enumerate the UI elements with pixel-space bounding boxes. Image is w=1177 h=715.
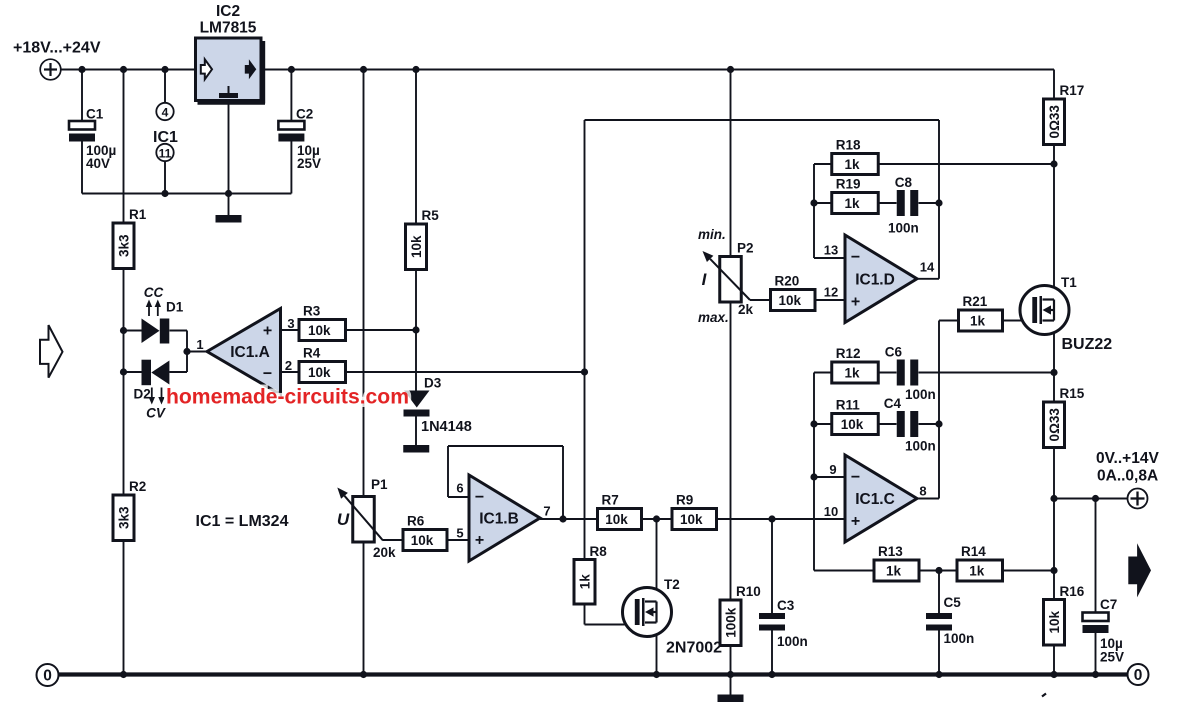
svg-text:max.: max. — [698, 310, 729, 325]
svg-text:1k: 1k — [844, 366, 860, 381]
wire R3 to R5/D3 node — [346, 326, 420, 333]
terminal + output — [1128, 489, 1148, 509]
wire P1 wiper to R6 — [383, 539, 403, 541]
svg-text:R4: R4 — [303, 346, 321, 361]
svg-text:−: − — [851, 469, 860, 486]
regulator IC2 LM7815 — [196, 3, 266, 104]
svg-text:100n: 100n — [905, 387, 936, 402]
wire C3 branch — [771, 519, 773, 675]
potentiometer P1 — [337, 477, 396, 560]
svg-text:−: − — [851, 249, 860, 266]
wire IC1.D output feedback line — [585, 120, 943, 372]
wire P2 bottom to R10 — [730, 301, 732, 601]
resistor R10 100k — [720, 584, 761, 646]
svg-text:+: + — [851, 513, 860, 530]
svg-text:T1: T1 — [1061, 275, 1077, 290]
IC1 pin 4 supply circle — [156, 103, 173, 120]
svg-text:+: + — [263, 323, 272, 340]
wire IC2 ground pin — [228, 101, 230, 216]
svg-text:14: 14 — [920, 260, 935, 275]
wire P2 branch top — [730, 70, 732, 257]
resistor R8 1k — [574, 544, 607, 604]
svg-text:R6: R6 — [407, 514, 425, 529]
ground — [216, 215, 242, 223]
svg-text:+18V...+24V: +18V...+24V — [13, 40, 101, 57]
wire C6 to T1 source sense — [919, 369, 1058, 376]
capacitor C6 — [885, 345, 936, 403]
wire R12 to C6 — [878, 372, 897, 374]
svg-text:CV: CV — [146, 406, 166, 421]
svg-text:U: U — [337, 510, 350, 529]
wire R11 left — [814, 423, 832, 425]
svg-text:IC1 = LM324: IC1 = LM324 — [196, 513, 289, 530]
svg-text:1k: 1k — [578, 574, 593, 590]
svg-text:10k: 10k — [308, 323, 331, 338]
svg-text:10k: 10k — [409, 235, 424, 258]
svg-text:LM7815: LM7815 — [200, 20, 257, 37]
wire T1 source to R15 — [1053, 321, 1055, 402]
svg-text:1k: 1k — [886, 564, 902, 579]
resistor R21 1k — [959, 294, 1003, 331]
svg-text:2: 2 — [285, 358, 292, 373]
capacitor C3 — [759, 598, 808, 649]
wire decoupling ground bus — [82, 190, 291, 197]
wire C8 to output node — [919, 202, 940, 204]
svg-text:C6: C6 — [885, 345, 903, 360]
svg-text:0: 0 — [43, 668, 52, 685]
wire R7 to T2 drain node — [642, 515, 673, 522]
svg-text:C1: C1 — [86, 107, 104, 122]
svg-text:100k: 100k — [724, 607, 739, 638]
wire IC1.B pin6 feedback loop — [448, 446, 567, 523]
wire +V top rail — [61, 66, 1055, 99]
wire IC1 supply pins branch — [164, 70, 166, 194]
svg-text:10k: 10k — [841, 417, 864, 432]
svg-text:25V: 25V — [1100, 650, 1124, 665]
wire T1 drain column — [1053, 145, 1055, 300]
svg-text:C8: C8 — [895, 175, 913, 190]
svg-text:R16: R16 — [1060, 584, 1085, 599]
ground — [718, 695, 744, 703]
svg-text:R9: R9 — [676, 493, 693, 508]
svg-text:100n: 100n — [905, 439, 936, 454]
output arrow — [1128, 543, 1151, 597]
wire R18 left — [814, 163, 832, 165]
wire R9 to C3 node and IC1.C pin10 — [717, 515, 846, 522]
wire R19 left — [814, 202, 832, 204]
resistor R4 10k — [299, 346, 346, 383]
svg-text:D2: D2 — [134, 387, 151, 402]
terminal 0 left — [37, 664, 59, 686]
svg-text:CC: CC — [144, 285, 164, 300]
resistor R12 1k — [832, 346, 879, 383]
svg-text:D1: D1 — [166, 300, 184, 315]
resistor R20 10k — [771, 274, 816, 311]
svg-text:+: + — [475, 532, 484, 549]
svg-text:20k: 20k — [373, 545, 396, 560]
svg-text:R1: R1 — [129, 207, 147, 222]
artifact mark — [1042, 694, 1046, 697]
svg-text:10k: 10k — [680, 512, 703, 527]
svg-text:C2: C2 — [296, 107, 313, 122]
svg-text:C5: C5 — [944, 595, 962, 610]
terminal + input — [40, 59, 61, 80]
wire R21 to T1 gate — [1003, 320, 1032, 322]
svg-text:9: 9 — [829, 462, 836, 477]
resistor R2 3k3 — [113, 479, 146, 541]
svg-text:10k: 10k — [778, 293, 801, 308]
node pin1 junction — [183, 348, 207, 355]
wire C7 branch — [1095, 499, 1097, 675]
svg-text:0A..0,8A: 0A..0,8A — [1097, 468, 1158, 485]
wire R19 to C8 — [878, 202, 897, 204]
svg-text:3k3: 3k3 — [117, 506, 132, 529]
wire R20 to IC1.D pin12 — [815, 299, 845, 301]
wire ground stub at 0V rail — [730, 676, 732, 695]
capacitor C4 — [884, 396, 936, 454]
wire R16 bottom — [1053, 645, 1055, 675]
svg-text:100n: 100n — [944, 631, 975, 646]
resistor R9 10k — [672, 493, 717, 530]
svg-text:6: 6 — [456, 481, 463, 496]
capacitor C1 — [69, 107, 116, 172]
wire C1 branch — [81, 70, 83, 194]
wire D3 to ground — [415, 417, 417, 446]
capacitor C5 — [926, 595, 974, 646]
wire IC1.C output pin8 — [917, 498, 939, 500]
svg-text:R21: R21 — [963, 294, 988, 309]
svg-text:1k: 1k — [844, 196, 860, 211]
svg-text:7: 7 — [543, 504, 550, 519]
wire IC1.B output pin7 to R7 — [540, 518, 598, 520]
resistor R3 10k — [299, 304, 346, 341]
svg-text:10k: 10k — [1047, 610, 1062, 633]
wire R1 top — [123, 70, 125, 224]
svg-text:8: 8 — [919, 484, 926, 499]
op-amp IC1.B — [469, 475, 540, 561]
svg-text:R5: R5 — [422, 208, 440, 223]
resistor R13 1k — [874, 544, 919, 581]
svg-text:12: 12 — [824, 285, 838, 300]
wire R13 to R14 node — [919, 567, 957, 574]
svg-text:R2: R2 — [129, 479, 146, 494]
wire D2 cathode — [124, 371, 142, 373]
resistor R11 10k — [832, 398, 879, 435]
resistor R17 0Ω33 — [1044, 83, 1085, 145]
resistor R6 10k — [403, 514, 447, 551]
svg-text:3: 3 — [287, 316, 294, 331]
LED D2 (CV) — [134, 360, 170, 421]
wire IC1.D output pin14 — [917, 278, 939, 280]
svg-text:IC1.C: IC1.C — [855, 491, 895, 508]
wire IC1.A pin2 to R4 — [281, 371, 300, 373]
wire R21 to IC1.C output node — [935, 321, 958, 499]
svg-text:R20: R20 — [775, 274, 800, 289]
svg-text:10k: 10k — [308, 365, 331, 380]
wire R11 to C4 — [878, 423, 897, 425]
svg-text:C7: C7 — [1100, 597, 1117, 612]
svg-text:R13: R13 — [878, 544, 903, 559]
svg-text:IC1.B: IC1.B — [479, 511, 519, 528]
svg-text:C4: C4 — [884, 396, 902, 411]
wire IC1.A pin3 to R3 — [281, 329, 300, 331]
svg-text:R3: R3 — [303, 304, 321, 319]
resistor R5 10k — [406, 208, 440, 270]
svg-text:D3: D3 — [424, 376, 442, 391]
svg-text:10: 10 — [824, 504, 838, 519]
svg-text:100n: 100n — [777, 634, 808, 649]
svg-text:1: 1 — [196, 337, 203, 352]
wire IC1.D pin13 branch — [810, 164, 845, 258]
svg-text:1k: 1k — [969, 564, 985, 579]
svg-text:R11: R11 — [836, 398, 861, 413]
svg-text:5: 5 — [456, 526, 463, 541]
potentiometer P2 — [698, 227, 754, 325]
input arrow — [40, 325, 63, 378]
resistor R19 1k — [832, 177, 879, 214]
wire R16 column — [1053, 571, 1055, 600]
svg-text:1N4148: 1N4148 — [421, 419, 472, 435]
svg-text:R17: R17 — [1060, 83, 1085, 98]
svg-text:R14: R14 — [961, 544, 986, 559]
wire C4 right — [919, 423, 940, 425]
wire 0V bottom rail — [58, 671, 1128, 678]
svg-text:IC1.D: IC1.D — [855, 271, 895, 288]
diode D3 1N4148 — [404, 376, 472, 436]
svg-text:IC2: IC2 — [216, 3, 240, 20]
wire R4 to feedback node — [346, 368, 589, 375]
svg-text:1k: 1k — [970, 314, 986, 329]
resistor R14 1k — [957, 544, 1003, 581]
wire C2 branch — [290, 70, 292, 194]
wire output line to + terminal — [1054, 495, 1128, 502]
wire R10 bottom — [730, 645, 732, 675]
svg-text:−: − — [263, 366, 272, 383]
wire IC1.C pin9 branch — [810, 373, 845, 571]
svg-text:R7: R7 — [602, 493, 619, 508]
svg-text:1k: 1k — [844, 157, 860, 172]
wire R15 to output node — [1050, 448, 1057, 571]
svg-text:R12: R12 — [836, 346, 861, 361]
wire T2 source — [656, 623, 658, 675]
capacitor C8 — [888, 175, 919, 236]
capacitor C2 — [278, 107, 321, 172]
wire R14 to T1 source line — [1003, 567, 1058, 574]
svg-text:10k: 10k — [411, 533, 434, 548]
wire P1 branch — [363, 70, 365, 675]
svg-text:BUZ22: BUZ22 — [1062, 336, 1113, 353]
svg-text:min.: min. — [698, 227, 726, 242]
svg-text:C3: C3 — [777, 598, 795, 613]
svg-text:R19: R19 — [836, 177, 861, 192]
svg-text:40V: 40V — [86, 156, 110, 171]
svg-text:2N7002: 2N7002 — [666, 640, 722, 657]
wire R18 to current sense node — [878, 160, 1058, 167]
svg-text:25V: 25V — [297, 156, 321, 171]
wire R6 to IC1.B pin5 — [447, 539, 469, 541]
op-amp IC1.D — [845, 235, 917, 323]
svg-text:T2: T2 — [664, 577, 680, 592]
svg-text:0Ω33: 0Ω33 — [1047, 105, 1062, 139]
wire feedback node to R8 — [584, 372, 586, 560]
wire D1 anode — [124, 330, 142, 332]
resistor R7 10k — [598, 493, 642, 530]
svg-text:homemade-circuits.com: homemade-circuits.com — [166, 385, 409, 409]
wire R1 to D1/D2 node — [120, 269, 127, 496]
wire P2 wiper to R20 — [750, 299, 771, 301]
transistor T1 MOSFET — [1020, 286, 1069, 335]
resistor R16 10k — [1044, 584, 1085, 645]
svg-text:−: − — [475, 489, 484, 506]
svg-text:10k: 10k — [605, 512, 628, 527]
resistor R1 3k3 — [113, 207, 147, 269]
svg-text:3k3: 3k3 — [117, 234, 132, 257]
svg-text:0: 0 — [1134, 667, 1143, 684]
ground — [403, 445, 429, 453]
svg-text:R18: R18 — [836, 138, 861, 153]
svg-text:100n: 100n — [888, 221, 919, 236]
terminal 0 right — [1128, 664, 1149, 685]
svg-text:0V..+14V: 0V..+14V — [1096, 450, 1159, 467]
wire R12 left — [814, 372, 832, 374]
svg-text:4: 4 — [162, 105, 169, 119]
wire T2 drain — [656, 519, 658, 602]
svg-text:R8: R8 — [590, 544, 608, 559]
resistor R18 1k — [832, 138, 879, 175]
wire R5 branch — [415, 70, 417, 391]
wire D2 anode to node — [169, 352, 187, 373]
svg-text:2k: 2k — [738, 302, 754, 317]
svg-text:P2: P2 — [737, 241, 754, 256]
LED D1 (CC) — [142, 285, 184, 344]
svg-text:11: 11 — [159, 146, 172, 160]
resistor R15 0Ω33 — [1044, 386, 1085, 448]
IC1 pin 11 supply circle — [156, 144, 173, 161]
capacitor C7 — [1083, 597, 1125, 665]
wire D1 cathode to node — [170, 331, 188, 352]
svg-text:+: + — [851, 294, 860, 311]
svg-text:R10: R10 — [736, 584, 761, 599]
wire R8 to T2 gate — [585, 604, 635, 625]
op-amp IC1.C — [845, 455, 917, 542]
svg-text:0Ω33: 0Ω33 — [1047, 408, 1062, 442]
wire R13 left — [814, 570, 874, 572]
svg-text:IC1.A: IC1.A — [230, 344, 270, 361]
wire C5 branch — [938, 571, 940, 675]
wire R2 bottom — [123, 541, 125, 675]
svg-text:P1: P1 — [371, 477, 388, 492]
transistor T2 MOSFET — [623, 588, 672, 637]
svg-text:13: 13 — [824, 243, 838, 258]
svg-text:R15: R15 — [1060, 386, 1085, 401]
op-amp IC1.A — [207, 309, 281, 395]
